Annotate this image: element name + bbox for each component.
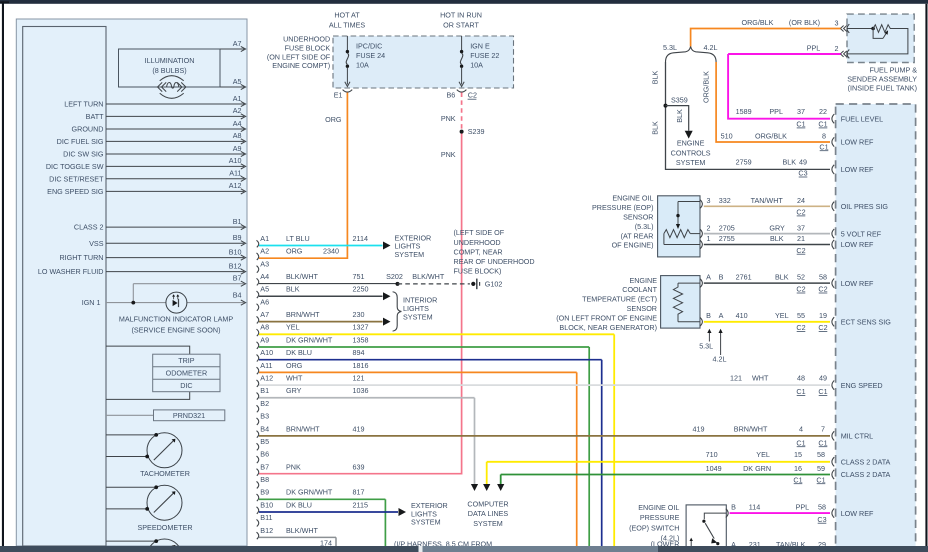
svg-text:BRN/WHT: BRN/WHT	[286, 310, 320, 319]
svg-text:LEFT TURN: LEFT TURN	[64, 100, 103, 109]
svg-text:A9: A9	[233, 144, 242, 153]
svg-text:(LEFT SIDE OF: (LEFT SIDE OF	[454, 228, 505, 237]
svg-text:ENG SPEED: ENG SPEED	[841, 381, 883, 390]
svg-text:A1: A1	[233, 94, 242, 103]
svg-text:DATA LINES: DATA LINES	[468, 509, 509, 518]
svg-text:GRY: GRY	[286, 386, 302, 395]
svg-text:BLK/WHT: BLK/WHT	[286, 526, 319, 535]
svg-text:ENG SPEED SIG: ENG SPEED SIG	[47, 187, 104, 196]
svg-text:B1: B1	[233, 217, 242, 226]
svg-text:BLK: BLK	[286, 285, 300, 294]
svg-text:BLK: BLK	[783, 158, 797, 167]
svg-text:ORG: ORG	[325, 115, 342, 124]
svg-text:A8: A8	[233, 131, 242, 140]
svg-text:A7: A7	[233, 39, 242, 48]
svg-text:8: 8	[822, 131, 826, 140]
svg-text:RIGHT TURN: RIGHT TURN	[59, 253, 103, 262]
svg-text:3: 3	[707, 196, 711, 205]
svg-text:B11: B11	[260, 513, 272, 522]
svg-text:16: 16	[794, 464, 802, 473]
svg-text:2250: 2250	[353, 285, 369, 294]
svg-text:ENGINE: ENGINE	[677, 139, 705, 148]
svg-text:A10: A10	[229, 156, 242, 165]
svg-text:BLK: BLK	[651, 121, 660, 135]
svg-text:DIC SET/RESET: DIC SET/RESET	[49, 174, 104, 183]
svg-text:C2: C2	[468, 91, 477, 100]
svg-text:59: 59	[817, 464, 825, 473]
svg-text:419: 419	[693, 425, 705, 434]
svg-text:DIC SW SIG: DIC SW SIG	[63, 150, 104, 159]
svg-text:2114: 2114	[353, 234, 368, 243]
svg-text:37: 37	[797, 223, 805, 232]
svg-text:B2: B2	[260, 399, 269, 408]
svg-text:(5.3L): (5.3L)	[635, 222, 654, 231]
svg-text:B: B	[719, 273, 724, 282]
svg-text:(8 BULBS): (8 BULBS)	[152, 66, 186, 75]
svg-text:BLK: BLK	[770, 234, 784, 243]
svg-text:A2: A2	[260, 247, 269, 256]
svg-text:DK GRN/WHT: DK GRN/WHT	[286, 488, 333, 497]
svg-text:CONTROLS: CONTROLS	[671, 148, 711, 157]
svg-text:B6: B6	[260, 450, 269, 459]
svg-text:4: 4	[799, 425, 803, 434]
svg-text:B10: B10	[260, 500, 273, 509]
svg-text:5 VOLT REF: 5 VOLT REF	[841, 229, 882, 238]
svg-text:5.3L: 5.3L	[699, 342, 713, 351]
svg-text:2340: 2340	[323, 247, 339, 256]
svg-text:C1: C1	[818, 387, 827, 396]
svg-text:19: 19	[819, 311, 827, 320]
svg-text:LT BLU: LT BLU	[286, 234, 310, 243]
svg-text:174: 174	[320, 538, 332, 547]
svg-text:7: 7	[821, 425, 825, 434]
svg-text:PRESSURE: PRESSURE	[640, 513, 680, 522]
svg-text:419: 419	[353, 424, 365, 433]
svg-text:49: 49	[819, 374, 827, 383]
svg-text:(SERVICE ENGINE SOON): (SERVICE ENGINE SOON)	[132, 325, 221, 334]
svg-text:(AT REAR: (AT REAR	[621, 231, 654, 240]
svg-text:DIC: DIC	[180, 381, 192, 390]
svg-text:PPL: PPL	[796, 503, 810, 512]
svg-text:22: 22	[819, 107, 827, 116]
svg-text:TACHOMETER: TACHOMETER	[140, 469, 190, 478]
svg-text:HOT IN RUN: HOT IN RUN	[440, 11, 482, 20]
svg-text:A8: A8	[260, 323, 269, 332]
svg-text:ECT SENS SIG: ECT SENS SIG	[841, 318, 892, 327]
svg-text:DK BLU: DK BLU	[286, 348, 312, 357]
svg-text:SENSOR: SENSOR	[627, 304, 657, 313]
svg-text:MIL CTRL: MIL CTRL	[841, 432, 873, 441]
svg-text:B7: B7	[260, 462, 269, 471]
svg-text:DK GRN/WHT: DK GRN/WHT	[286, 335, 333, 344]
svg-text:ORG/BLK: ORG/BLK	[702, 71, 711, 103]
svg-text:C1: C1	[796, 120, 805, 129]
svg-text:YEL: YEL	[756, 450, 770, 459]
svg-text:A4: A4	[260, 272, 269, 281]
svg-text:UNDERHOOD: UNDERHOOD	[283, 35, 330, 44]
svg-text:C2: C2	[818, 323, 827, 332]
svg-text:S239: S239	[468, 127, 485, 136]
svg-text:A: A	[706, 273, 711, 282]
svg-text:B10: B10	[229, 247, 242, 256]
svg-text:(EOP) SWITCH: (EOP) SWITCH	[629, 523, 679, 532]
svg-text:ILLUMINATION: ILLUMINATION	[145, 56, 195, 65]
svg-text:B7: B7	[233, 274, 242, 283]
svg-text:WHT: WHT	[286, 373, 303, 382]
svg-text:SENSOR: SENSOR	[623, 213, 653, 222]
svg-text:A5: A5	[260, 285, 269, 294]
svg-text:LOW REF: LOW REF	[841, 240, 874, 249]
svg-text:ORG: ORG	[286, 361, 303, 370]
svg-text:BLK/WHT: BLK/WHT	[286, 272, 319, 281]
svg-text:751: 751	[353, 272, 365, 281]
svg-text:SPEEDOMETER: SPEEDOMETER	[137, 523, 192, 532]
svg-text:LOW REF: LOW REF	[841, 165, 874, 174]
svg-text:B9: B9	[260, 488, 269, 497]
svg-text:ORG/BLK: ORG/BLK	[742, 18, 774, 27]
svg-text:230: 230	[353, 310, 365, 319]
svg-text:B12: B12	[229, 261, 242, 270]
svg-text:A7: A7	[260, 310, 269, 319]
svg-text:ENGINE: ENGINE	[629, 276, 657, 285]
svg-text:SENDER ASSEMBLY: SENDER ASSEMBLY	[847, 75, 917, 84]
svg-text:BLK: BLK	[775, 273, 789, 282]
svg-text:639: 639	[353, 462, 365, 471]
svg-text:FUEL PUMP &: FUEL PUMP &	[869, 65, 917, 74]
svg-text:B6: B6	[447, 91, 456, 100]
svg-text:B: B	[731, 503, 736, 512]
svg-text:PNK: PNK	[441, 150, 456, 159]
svg-text:B1: B1	[260, 386, 269, 395]
svg-text:B3: B3	[260, 412, 269, 421]
svg-text:FUEL LEVEL: FUEL LEVEL	[841, 114, 883, 123]
svg-text:114: 114	[749, 503, 760, 512]
svg-text:PPL: PPL	[769, 107, 783, 116]
svg-text:B8: B8	[260, 475, 269, 484]
svg-text:332: 332	[719, 196, 731, 205]
svg-text:(ON LEFT SIDE OF: (ON LEFT SIDE OF	[267, 52, 331, 61]
svg-text:LOW REF: LOW REF	[841, 509, 874, 518]
svg-text:S202: S202	[386, 272, 403, 281]
svg-text:894: 894	[353, 348, 365, 357]
svg-text:OF ENGINE): OF ENGINE)	[612, 241, 654, 250]
svg-text:(OR BLK): (OR BLK)	[789, 18, 820, 27]
svg-text:37: 37	[797, 107, 805, 116]
svg-text:COOLANT: COOLANT	[622, 285, 657, 294]
svg-text:15: 15	[794, 450, 802, 459]
svg-text:C1: C1	[796, 387, 805, 396]
svg-text:BLK: BLK	[651, 71, 660, 85]
svg-text:2759: 2759	[736, 158, 752, 167]
svg-text:BATT: BATT	[86, 112, 104, 121]
svg-text:A1: A1	[260, 234, 269, 243]
svg-text:C2: C2	[796, 208, 805, 217]
svg-text:21: 21	[797, 234, 805, 243]
svg-text:C1: C1	[796, 438, 805, 447]
svg-text:24: 24	[797, 196, 805, 205]
svg-text:OR START: OR START	[443, 20, 479, 29]
svg-text:PPL: PPL	[807, 43, 821, 52]
svg-text:510: 510	[721, 131, 733, 140]
svg-text:ORG/BLK: ORG/BLK	[755, 131, 787, 140]
svg-text:A11: A11	[260, 361, 272, 370]
svg-text:DIC TOGGLE SW: DIC TOGGLE SW	[46, 162, 104, 171]
svg-text:FUSE 24: FUSE 24	[356, 51, 385, 60]
svg-text:UNDERHOOD: UNDERHOOD	[454, 238, 501, 247]
svg-text:10A: 10A	[470, 60, 483, 69]
svg-text:55: 55	[797, 311, 805, 320]
svg-text:ODOMETER: ODOMETER	[166, 369, 208, 378]
svg-text:C1: C1	[818, 120, 827, 129]
svg-text:2761: 2761	[736, 273, 752, 282]
svg-text:5.3L: 5.3L	[663, 43, 677, 52]
svg-text:FUSE BLOCK: FUSE BLOCK	[285, 43, 331, 52]
svg-text:C2: C2	[796, 285, 805, 294]
svg-text:1589: 1589	[736, 107, 752, 116]
svg-text:SYSTEM: SYSTEM	[473, 519, 503, 528]
svg-text:FUSE BLOCK): FUSE BLOCK)	[454, 267, 502, 276]
svg-text:A6: A6	[260, 297, 269, 306]
svg-text:LOW REF: LOW REF	[841, 279, 874, 288]
svg-text:58: 58	[817, 450, 825, 459]
svg-text:PNK: PNK	[286, 462, 301, 471]
svg-text:(ON LEFT FRONT OF ENGINE: (ON LEFT FRONT OF ENGINE	[556, 313, 657, 322]
svg-text:GRY: GRY	[769, 223, 785, 232]
svg-text:4.2L: 4.2L	[713, 355, 727, 364]
svg-text:SYSTEM: SYSTEM	[395, 250, 425, 259]
svg-text:YEL: YEL	[286, 323, 300, 332]
svg-text:LOW REF: LOW REF	[841, 138, 874, 147]
svg-text:2755: 2755	[719, 234, 735, 243]
svg-text:COMPUTER: COMPUTER	[467, 500, 508, 509]
svg-text:C2: C2	[796, 246, 805, 255]
svg-text:C1: C1	[819, 142, 828, 151]
svg-text:SYSTEM: SYSTEM	[403, 312, 433, 321]
svg-text:C3: C3	[817, 515, 826, 524]
svg-text:B4: B4	[233, 291, 242, 300]
svg-text:48: 48	[797, 374, 805, 383]
svg-text:1: 1	[707, 234, 711, 243]
svg-text:B12: B12	[260, 526, 273, 535]
svg-text:VSS: VSS	[89, 239, 104, 248]
svg-text:A12: A12	[260, 373, 273, 382]
svg-text:C1: C1	[816, 475, 825, 484]
svg-text:BLK: BLK	[675, 109, 684, 123]
svg-text:BLOCK, NEAR GENERATOR): BLOCK, NEAR GENERATOR)	[559, 323, 657, 332]
svg-text:PRESSURE (EOP): PRESSURE (EOP)	[592, 203, 654, 212]
svg-text:CLASS 2: CLASS 2	[74, 223, 104, 232]
svg-text:C1: C1	[793, 475, 802, 484]
svg-text:IGN E: IGN E	[470, 41, 490, 50]
svg-text:1327: 1327	[353, 323, 369, 332]
svg-text:ORG: ORG	[286, 247, 303, 256]
svg-text:SYSTEM: SYSTEM	[411, 517, 441, 526]
svg-text:(INSIDE FUEL TANK): (INSIDE FUEL TANK)	[848, 84, 917, 93]
svg-text:A2: A2	[233, 106, 242, 115]
svg-text:FUSE 22: FUSE 22	[470, 51, 499, 60]
svg-text:E1: E1	[334, 91, 343, 100]
svg-text:C2: C2	[796, 323, 805, 332]
svg-text:WHT: WHT	[752, 374, 769, 383]
svg-text:IGN 1: IGN 1	[82, 298, 101, 307]
svg-text:A3: A3	[260, 259, 269, 268]
svg-text:DK GRN: DK GRN	[743, 464, 771, 473]
svg-text:MALFUNCTION INDICATOR LAMP: MALFUNCTION INDICATOR LAMP	[119, 315, 234, 324]
svg-text:BRN/WHT: BRN/WHT	[286, 424, 320, 433]
svg-text:C1: C1	[818, 438, 827, 447]
svg-text:121: 121	[353, 373, 365, 382]
svg-text:710: 710	[706, 450, 718, 459]
svg-text:52: 52	[797, 273, 805, 282]
svg-text:B4: B4	[260, 424, 269, 433]
svg-text:B: B	[706, 311, 711, 320]
svg-text:CLASS 2 DATA: CLASS 2 DATA	[841, 470, 891, 479]
svg-text:DK BLU: DK BLU	[286, 500, 312, 509]
svg-text:TRIP: TRIP	[178, 356, 195, 365]
svg-text:REAR OF UNDERHOOD: REAR OF UNDERHOOD	[454, 257, 535, 266]
svg-text:B9: B9	[233, 233, 242, 242]
svg-text:IPC/DIC: IPC/DIC	[356, 41, 382, 50]
svg-text:BLK/WHT: BLK/WHT	[412, 272, 445, 281]
svg-text:PRND321: PRND321	[173, 411, 205, 420]
svg-text:817: 817	[353, 488, 365, 497]
svg-text:CLASS 2 DATA: CLASS 2 DATA	[841, 458, 891, 467]
svg-text:A11: A11	[229, 169, 241, 178]
svg-text:A9: A9	[260, 335, 269, 344]
svg-text:C2: C2	[818, 285, 827, 294]
svg-text:ENGINE OIL: ENGINE OIL	[612, 194, 653, 203]
svg-text:TAN/WHT: TAN/WHT	[751, 196, 784, 205]
svg-text:2: 2	[707, 223, 711, 232]
svg-text:A5: A5	[233, 77, 242, 86]
svg-text:A10: A10	[260, 348, 273, 357]
svg-text:OIL PRES SIG: OIL PRES SIG	[841, 202, 889, 211]
svg-text:S359: S359	[671, 96, 688, 105]
svg-text:2115: 2115	[353, 500, 368, 509]
svg-text:58: 58	[818, 503, 826, 512]
svg-text:10A: 10A	[356, 60, 369, 69]
svg-text:1358: 1358	[353, 335, 369, 344]
svg-text:49: 49	[799, 158, 807, 167]
svg-text:3: 3	[835, 18, 839, 27]
svg-text:SYSTEM: SYSTEM	[676, 158, 706, 167]
svg-text:C3: C3	[798, 169, 807, 178]
svg-text:A12: A12	[229, 181, 242, 190]
svg-text:G102: G102	[485, 280, 503, 289]
svg-text:121: 121	[730, 374, 742, 383]
svg-text:A4: A4	[233, 119, 242, 128]
svg-text:A: A	[719, 311, 724, 320]
svg-text:BRN/WHT: BRN/WHT	[734, 425, 768, 434]
svg-text:HOT AT: HOT AT	[334, 11, 360, 20]
svg-text:COMPT, NEAR: COMPT, NEAR	[454, 247, 503, 256]
svg-text:LO WASHER FLUID: LO WASHER FLUID	[38, 267, 104, 276]
svg-text:2: 2	[835, 44, 839, 53]
svg-text:4.2L: 4.2L	[704, 43, 718, 52]
svg-text:ALL TIMES: ALL TIMES	[329, 20, 366, 29]
svg-text:1049: 1049	[706, 464, 722, 473]
svg-text:DIC FUEL SIG: DIC FUEL SIG	[57, 137, 104, 146]
svg-text:PNK: PNK	[441, 114, 456, 123]
svg-text:1816: 1816	[353, 361, 369, 370]
svg-text:YEL: YEL	[775, 311, 789, 320]
svg-text:TEMPERATURE (ECT): TEMPERATURE (ECT)	[582, 295, 657, 304]
svg-text:410: 410	[736, 311, 748, 320]
svg-text:2705: 2705	[719, 223, 735, 232]
svg-text:ENGINE OIL: ENGINE OIL	[638, 503, 679, 512]
svg-text:GROUND: GROUND	[72, 125, 104, 134]
svg-text:1036: 1036	[353, 386, 369, 395]
svg-text:B5: B5	[260, 437, 269, 446]
svg-text:ENGINE COMPT): ENGINE COMPT)	[272, 61, 330, 70]
svg-text:58: 58	[819, 273, 827, 282]
